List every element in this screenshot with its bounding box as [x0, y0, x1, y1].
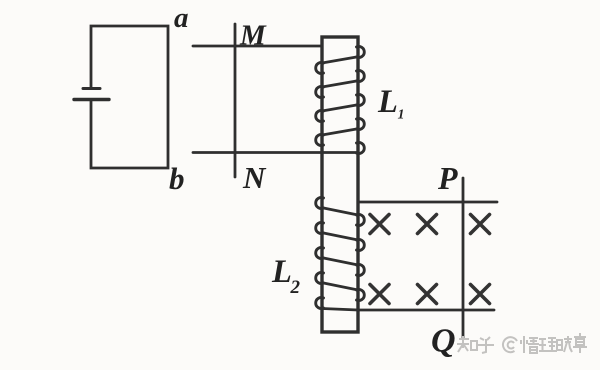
svg-text:b: b [169, 161, 185, 196]
svg-text:L: L [377, 84, 398, 120]
svg-text:2: 2 [290, 277, 301, 298]
svg-text:N: N [242, 160, 267, 195]
svg-text:L: L [271, 254, 292, 290]
svg-text:M: M [239, 20, 267, 52]
svg-text:Q: Q [431, 323, 456, 360]
svg-text:a: a [174, 2, 189, 34]
svg-text:P: P [437, 160, 458, 196]
svg-text:1: 1 [398, 108, 405, 123]
